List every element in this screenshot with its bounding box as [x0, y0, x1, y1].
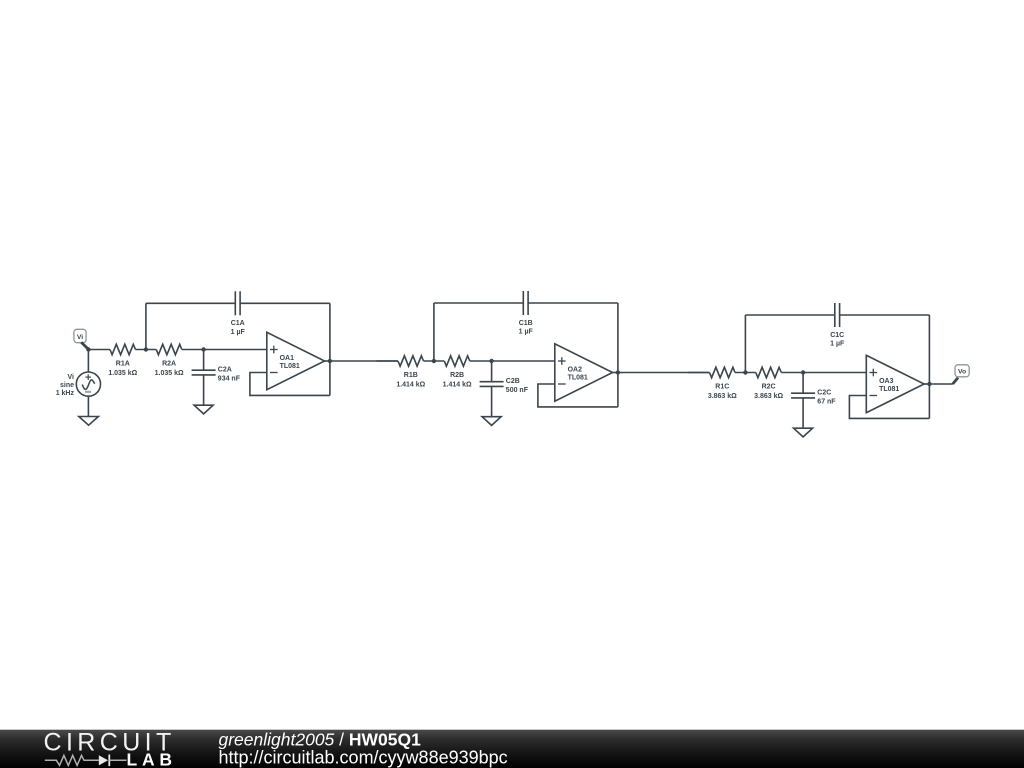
capacitor C2A	[192, 350, 241, 406]
wire op-amp output lead	[924, 383, 929, 385]
wire input lead to R1B	[376, 360, 398, 362]
wire junction down to source V1	[87, 350, 89, 373]
svg-text:http://circuitlab.com/cyyw88e9: http://circuitlab.com/cyyw88e939bpc	[219, 748, 508, 768]
svg-text:TL081: TL081	[568, 375, 588, 382]
svg-text:R2B: R2B	[450, 372, 464, 379]
capacitor C2C	[791, 373, 836, 429]
node Vi junction	[86, 347, 90, 351]
svg-text:R2A: R2A	[162, 361, 176, 368]
node Vo flag	[955, 365, 969, 377]
svg-text:R1C: R1C	[715, 384, 729, 391]
output node junction of OA3	[927, 382, 931, 386]
wire feedback top line right segment	[840, 314, 930, 316]
ground below C2A	[194, 405, 213, 414]
svg-text:67 nF: 67 nF	[817, 398, 836, 405]
wire Vi flag pointer	[81, 342, 88, 349]
svg-text:LAB: LAB	[127, 750, 177, 768]
CircuitLab logo text CIRCUIT	[44, 729, 176, 757]
CircuitLab logo text LAB	[127, 750, 177, 768]
svg-text:OA1: OA1	[280, 355, 295, 362]
svg-text:1.035 kΩ: 1.035 kΩ	[155, 370, 184, 377]
wire feedback top line left segment	[146, 302, 235, 304]
wire inverting feedback loop	[250, 373, 330, 396]
resistor R2C	[754, 367, 783, 400]
svg-text:R1A: R1A	[116, 361, 130, 368]
svg-text:C1C: C1C	[830, 332, 844, 339]
wire node B1 up to feedback line	[433, 303, 435, 361]
footer url	[219, 748, 508, 768]
wire feedback right vertical	[617, 303, 619, 407]
junction node A2	[201, 347, 205, 351]
wire op-amp output lead	[325, 360, 330, 362]
svg-text:1 µF: 1 µF	[519, 329, 534, 336]
wire feedback right vertical	[329, 303, 331, 395]
wire R1C to R2C	[735, 372, 756, 374]
wire feedback top line right segment	[528, 302, 618, 304]
capacitor C1A	[231, 291, 246, 336]
svg-text:C2C: C2C	[817, 390, 831, 397]
logo resistor symbol	[45, 755, 99, 765]
svg-text:934 nF: 934 nF	[218, 375, 241, 382]
svg-text:Vo: Vo	[958, 369, 966, 376]
svg-text:C1A: C1A	[231, 320, 245, 327]
svg-text:R1B: R1B	[404, 372, 418, 379]
wire R1A to R2A	[136, 349, 157, 351]
wire OA1 output to stage B	[330, 360, 398, 362]
op-amp OA3	[866, 355, 924, 412]
wire node C1 up to feedback line	[744, 315, 746, 373]
wire R2B to op-amp + input	[470, 360, 555, 362]
junction node C2	[801, 370, 805, 374]
wire R2A to op-amp + input	[182, 349, 267, 351]
resistor R1C	[708, 367, 737, 400]
svg-text:Vi: Vi	[77, 334, 83, 341]
junction node A1	[144, 347, 148, 351]
svg-text:C2A: C2A	[218, 367, 232, 374]
wire feedback top line left segment	[745, 314, 834, 316]
wire op-amp output lead	[613, 372, 618, 374]
svg-text:C2B: C2B	[506, 378, 520, 385]
wire OA3 output to Vo flag	[929, 383, 952, 385]
capacitor C1B	[519, 291, 534, 336]
wire feedback right vertical	[928, 315, 930, 418]
svg-text:1 µF: 1 µF	[830, 341, 845, 348]
node Vi flag	[74, 329, 86, 342]
op-amp OA1	[267, 332, 325, 389]
svg-text:sine: sine	[60, 382, 74, 389]
junction node B1	[432, 359, 436, 363]
wire R2C to op-amp + input	[781, 372, 866, 374]
capacitor C1C	[830, 303, 845, 348]
footer bar	[0, 730, 1024, 768]
svg-text:1 kHz: 1 kHz	[56, 390, 75, 397]
ground below C2B	[482, 417, 501, 426]
svg-text:C1B: C1B	[519, 320, 533, 327]
resistor R1B	[396, 356, 425, 389]
resistor R1A	[108, 344, 137, 377]
wire feedback top line right segment	[240, 302, 330, 304]
svg-text:greenlight2005 / HW05Q1: greenlight2005 / HW05Q1	[219, 730, 422, 750]
voltage source Vi (sine 1 kHz)	[56, 372, 101, 397]
svg-text:3.863 kΩ: 3.863 kΩ	[754, 393, 783, 400]
wire input lead to R1C	[688, 372, 710, 374]
svg-text:OA2: OA2	[568, 367, 583, 374]
footer title: greenlight2005 / HW05Q1	[219, 730, 422, 750]
wire inverting feedback loop	[538, 384, 618, 407]
output node junction of OA1	[328, 359, 332, 363]
svg-text:R2C: R2C	[762, 384, 776, 391]
wire inverting feedback loop	[849, 396, 929, 419]
svg-text:1 µF: 1 µF	[231, 329, 246, 336]
ground below source V1	[79, 417, 99, 426]
output node junction of OA2	[616, 370, 620, 374]
svg-text:OA3: OA3	[879, 378, 894, 385]
logo diode symbol	[99, 755, 127, 767]
svg-text:TL081: TL081	[879, 386, 899, 393]
svg-text:500 nF: 500 nF	[506, 387, 529, 394]
wire input lead to R1A	[88, 349, 110, 351]
op-amp OA2	[555, 344, 613, 401]
svg-text:3.863 kΩ: 3.863 kΩ	[708, 393, 737, 400]
wire R1B to R2B	[424, 360, 445, 362]
wire OA2 output to stage C	[618, 372, 710, 374]
svg-text:TL081: TL081	[280, 363, 300, 370]
wire feedback top line left segment	[434, 302, 523, 304]
ground below C2C	[794, 428, 813, 437]
svg-text:Vi: Vi	[68, 374, 75, 381]
svg-text:1.414 kΩ: 1.414 kΩ	[396, 382, 425, 389]
wire Vo flag pointer	[953, 378, 958, 384]
junction node B2	[489, 359, 493, 363]
svg-text:1.414 kΩ: 1.414 kΩ	[443, 382, 472, 389]
resistor R2A	[155, 344, 184, 377]
wire source V1 to ground	[87, 396, 89, 416]
resistor R2B	[443, 356, 472, 389]
svg-text:1.035 kΩ: 1.035 kΩ	[108, 370, 137, 377]
junction node C1	[743, 370, 747, 374]
wire node A1 up to feedback line	[145, 303, 147, 349]
capacitor C2B	[480, 361, 529, 417]
